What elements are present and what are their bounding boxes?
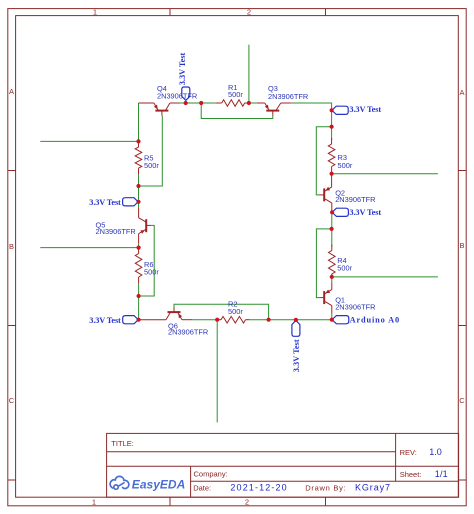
wire top center vertical stub	[248, 45, 250, 103]
svg-text:C: C	[9, 396, 15, 405]
resistor R4	[329, 245, 336, 277]
wire R3 bottom node long wire right	[332, 173, 438, 175]
svg-text:3.3V Test: 3.3V Test	[292, 339, 301, 372]
svg-text:500r: 500r	[337, 263, 352, 272]
title block outline	[107, 433, 459, 497]
svg-text:3.3V Test: 3.3V Test	[89, 198, 121, 207]
svg-text:C: C	[459, 396, 465, 405]
resistor R1	[216, 100, 249, 107]
frame tick top 1	[169, 9, 171, 16]
svg-text:3.3V Test: 3.3V Test	[349, 105, 381, 114]
resistor R3	[328, 138, 335, 174]
svg-text:B: B	[459, 241, 464, 250]
wire Q4 emitter corner down to R5 top	[138, 103, 140, 141]
svg-text:A: A	[459, 88, 464, 97]
svg-text:3.3V Test: 3.3V Test	[178, 52, 187, 85]
svg-text:2N3906TFR: 2N3906TFR	[168, 328, 208, 337]
svg-text:2021-12-20: 2021-12-20	[230, 483, 286, 493]
svg-text:500r: 500r	[144, 268, 159, 277]
wire left stub to R5 top node	[40, 140, 138, 142]
frame tick left 1	[8, 170, 16, 172]
transistor Q6	[139, 307, 192, 320]
svg-text:3.3V Test: 3.3V Test	[89, 316, 121, 325]
wire R1 right to Q3	[245, 102, 257, 104]
svg-text:2N3906TFR: 2N3906TFR	[335, 303, 375, 312]
frame tick bottom 2	[325, 497, 327, 506]
netflag 3.3V Test left lower	[123, 316, 139, 324]
svg-text:TITLE:: TITLE:	[111, 439, 134, 448]
netflag 3.3V Test top vertical	[182, 87, 190, 100]
svg-text:2N3906TFR: 2N3906TFR	[268, 92, 308, 101]
svg-text:KGray7: KGray7	[355, 483, 390, 493]
wire top rail Q4 to R1	[180, 102, 216, 104]
svg-text:1: 1	[92, 497, 96, 506]
wire bottom rail R2 right to Arduino node	[250, 319, 332, 321]
frame tick bottom 1	[169, 497, 171, 506]
resistor R5	[135, 141, 142, 174]
resistor R6	[135, 248, 142, 283]
frame tick right 3	[458, 479, 466, 481]
transistor Q3	[257, 103, 291, 116]
svg-text:2N3906TFR: 2N3906TFR	[157, 91, 197, 100]
frame tick right 1	[458, 170, 466, 172]
svg-text:B: B	[9, 242, 14, 251]
wire R5 bottom node down to 3.3V flag node	[138, 174, 140, 207]
svg-text:Drawn By:: Drawn By:	[305, 484, 346, 493]
netflag 3.3V Test left upper	[123, 198, 139, 206]
wire left stub to R6 top node	[40, 247, 138, 249]
wire R4 bottom node down to Q1	[331, 277, 333, 283]
frame tick top 2	[325, 9, 327, 16]
wire Q5 base link down to R6 bottom node	[139, 225, 155, 296]
svg-text:Arduino A0: Arduino A0	[350, 315, 400, 324]
wire bottom left long vertical	[216, 320, 218, 423]
svg-text:500r: 500r	[338, 161, 353, 170]
svg-text:EasyEDA: EasyEDA	[132, 480, 186, 492]
wire Q1 collector to Arduino node	[331, 314, 333, 320]
frame tick left 3	[8, 479, 16, 481]
netflag Arduino A0	[332, 316, 349, 324]
svg-text:2: 2	[247, 8, 251, 17]
netflag 3.3V Test right upper	[332, 106, 348, 114]
svg-text:Sheet:: Sheet:	[400, 470, 422, 479]
svg-text:REV:: REV:	[400, 448, 417, 457]
svg-text:3.3V Test: 3.3V Test	[349, 208, 381, 217]
svg-text:500r: 500r	[228, 90, 243, 99]
svg-text:Company:: Company:	[194, 469, 228, 478]
wire right column flag node to R3	[331, 110, 333, 140]
wire R6 bottom node down to 3.3V flag node	[138, 283, 140, 320]
wire R4 bottom node long wire right	[332, 276, 438, 278]
svg-text:Date:: Date:	[193, 484, 211, 493]
wire Q4 base U-link	[139, 116, 163, 187]
EasyEDA logo cloud icon	[110, 476, 129, 489]
svg-text:1.0: 1.0	[429, 447, 442, 457]
svg-text:500r: 500r	[144, 161, 159, 170]
wire Q2 collector flag node down	[331, 212, 333, 246]
frame tick left 2	[8, 325, 16, 327]
svg-text:1: 1	[93, 8, 97, 17]
frame tick right 2	[458, 325, 466, 327]
wire Q1 base L-link up to node	[316, 229, 331, 298]
resistor R2	[217, 316, 249, 323]
svg-text:A: A	[9, 87, 14, 96]
wire Q3 collector to right column corner	[291, 103, 332, 110]
transistor Q1	[320, 283, 332, 314]
svg-text:2: 2	[245, 497, 249, 506]
svg-text:2N3906TFR: 2N3906TFR	[335, 195, 375, 204]
wire Q6 base link to R2 right node	[174, 304, 269, 319]
transistor Q5	[139, 207, 152, 247]
svg-text:1/1: 1/1	[435, 469, 448, 479]
wire Q2 base L-link up to node	[316, 127, 331, 195]
svg-text:500r: 500r	[228, 307, 243, 316]
wire Q3 base U-link to R1 left node	[201, 103, 273, 119]
svg-text:2N3906TFR: 2N3906TFR	[96, 227, 136, 236]
netflag 3.3V Test bottom vertical	[292, 320, 300, 336]
transistor Q4	[139, 103, 180, 116]
transistor Q2	[320, 174, 332, 213]
wire bottom rail Q6 to R2 node	[192, 319, 217, 321]
junction node dots	[136, 101, 334, 322]
netflag 3.3V Test right middle	[332, 208, 348, 216]
